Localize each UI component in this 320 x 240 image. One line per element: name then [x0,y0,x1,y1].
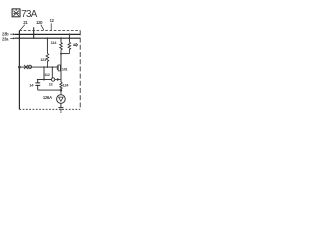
left rail / box left border [18,30,20,109]
main vertical line [60,54,62,82]
ground stem [60,103,62,107]
OLED 126A circle [57,95,66,104]
arrow from circle to main line [55,78,61,80]
title figure label 図73A [12,9,20,17]
capacitor 14 plates [35,83,40,86]
svg-text:101: 101 [62,67,68,71]
resistor 124 zigzag on main line [60,82,62,95]
arrow mark near right border [73,43,77,46]
label 21 leader [20,25,25,30]
resistor 115 column (right) [68,34,70,42]
bus line 23b [15,33,81,35]
resistor 121 column wire [46,38,48,53]
svg-text:13: 13 [49,82,53,86]
bottom wire to anode node [38,89,61,91]
diode triangle inside [59,97,64,101]
svg-text:126A: 126A [43,95,52,100]
transistor circle column [51,67,53,78]
svg-text:120: 120 [36,20,43,25]
vertical to storage node [43,67,45,79]
bus line 23a [15,37,81,39]
switch cross symbol [24,65,28,69]
ground bars [58,107,63,112]
label 120 leader [41,25,44,30]
resistor 114 column (left) [60,38,62,42]
small reference labels [2,18,69,100]
resistor 121 zigzag [46,53,49,67]
capacitor 14 top stub [37,80,39,83]
label 23b arrow [10,33,13,35]
transistor small circle [51,78,54,81]
svg-text:23a: 23a [2,36,9,41]
wire: data line entering top [33,27,35,38]
gate wire row [19,66,57,68]
label 12 leader [50,23,52,30]
storage node wire [37,79,52,81]
box border top (dash-dot) [19,29,80,31]
box border bottom (dotted) [19,108,80,110]
transistor 101 gate bar [56,65,58,70]
transistor 101 channel [58,65,60,71]
label 23a arrow [10,37,13,39]
junction dots [18,33,70,91]
join wire of resistor columns [61,53,69,55]
small circle on gate wire [28,65,31,68]
capacitor 14 bottom stub [37,86,39,91]
box border right (dash-dot) [79,30,81,109]
svg-text:73A: 73A [21,9,38,20]
